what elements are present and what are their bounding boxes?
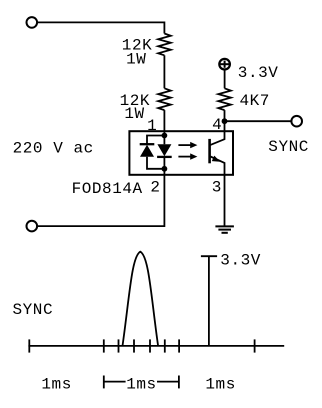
node junction dot pin1: [162, 133, 168, 139]
diode D1 (LED up): [140, 144, 155, 157]
svg-text:SYNC: SYNC: [268, 138, 309, 156]
transistor Q1 base bar: [208, 139, 211, 163]
svg-text:SYNC: SYNC: [13, 301, 54, 319]
svg-text:1W: 1W: [124, 105, 144, 123]
svg-text:2: 2: [150, 178, 160, 196]
label R1 power 1W: [126, 50, 146, 68]
svg-text:4: 4: [212, 116, 222, 134]
svg-text:220 V ac: 220 V ac: [13, 139, 94, 157]
resistor R2 12K: [158, 88, 171, 110]
measure bracket 1ms: [104, 376, 179, 389]
transistor Q1 emitter: [210, 156, 224, 227]
svg-text:3.3V: 3.3V: [238, 64, 279, 82]
svg-text:3: 3: [212, 178, 222, 196]
wire supply to R3: [224, 70, 226, 88]
3.3V level line: [201, 256, 217, 346]
axis tick 8: [254, 339, 256, 352]
wire dot to D2: [163, 136, 165, 145]
resistor R1 12K: [158, 34, 171, 56]
axis tick 1: [28, 339, 30, 352]
label 1ms left: [41, 375, 71, 393]
label supply 3.3V: [238, 64, 279, 82]
wire D2 to bottom dot: [163, 157, 165, 169]
pin label 1: [147, 117, 157, 135]
terminal J2 (220V ac bottom): [27, 221, 38, 232]
label waveform SYNC: [13, 301, 54, 319]
resistor R3 4K7: [218, 88, 231, 110]
wire dot to left branch: [147, 136, 164, 145]
label waveform 3.3V: [220, 251, 261, 269]
axis tick 2: [103, 339, 105, 352]
svg-text:FOD814A: FOD814A: [72, 180, 143, 198]
op-to-coupler U1 body box: [129, 131, 233, 175]
wire R1 to R2: [163, 55, 165, 88]
axis tick 3: [118, 339, 120, 352]
axis tick 4: [133, 339, 135, 352]
svg-text:3.3V: 3.3V: [220, 251, 261, 269]
label 220 V ac: [13, 139, 94, 157]
terminal J3 SYNC: [291, 116, 302, 127]
pin label 4: [212, 116, 222, 134]
wire D1 to bottom dot: [147, 157, 164, 169]
terminal J1 (220V ac top): [27, 17, 38, 28]
svg-text:1ms: 1ms: [205, 375, 235, 393]
label R1 value 12K: [122, 36, 152, 54]
ground symbol: [215, 226, 234, 232]
light arrow upper: [178, 142, 197, 148]
supply +3.3V symbol: [219, 59, 230, 70]
label SYNC: [268, 138, 309, 156]
svg-text:1: 1: [147, 117, 157, 135]
label R2 value 12K: [120, 92, 150, 110]
wire R3 to node SYNC: [224, 110, 226, 121]
pin label 3: [212, 178, 222, 196]
wire R2 to pin 1: [163, 110, 165, 135]
svg-text:1W: 1W: [126, 50, 146, 68]
label R2 power 1W: [124, 105, 144, 123]
wire top terminal to R1: [38, 22, 165, 33]
label 1ms middle: [126, 375, 156, 393]
waveform time axis: [28, 345, 284, 347]
sync pulse curve: [123, 252, 159, 346]
axis tick 5: [149, 339, 151, 352]
label 1ms right: [205, 375, 235, 393]
pin label 2: [150, 178, 160, 196]
light arrow lower: [178, 153, 197, 159]
svg-text:1ms: 1ms: [126, 375, 156, 393]
label U1 FOD814A: [72, 180, 143, 198]
svg-text:1ms: 1ms: [41, 375, 71, 393]
node junction dot pin4: [222, 118, 228, 124]
axis tick 7: [178, 339, 180, 352]
label R3 value 4K7: [240, 92, 270, 110]
axis tick 6: [164, 339, 166, 352]
node junction dot pin2: [162, 166, 168, 172]
wire node to SYNC terminal: [225, 120, 292, 122]
svg-text:4K7: 4K7: [240, 92, 270, 110]
wire pin2 down and left: [38, 169, 165, 226]
diode D2 (LED down): [157, 144, 172, 157]
transistor Q1 collector: [210, 121, 224, 145]
